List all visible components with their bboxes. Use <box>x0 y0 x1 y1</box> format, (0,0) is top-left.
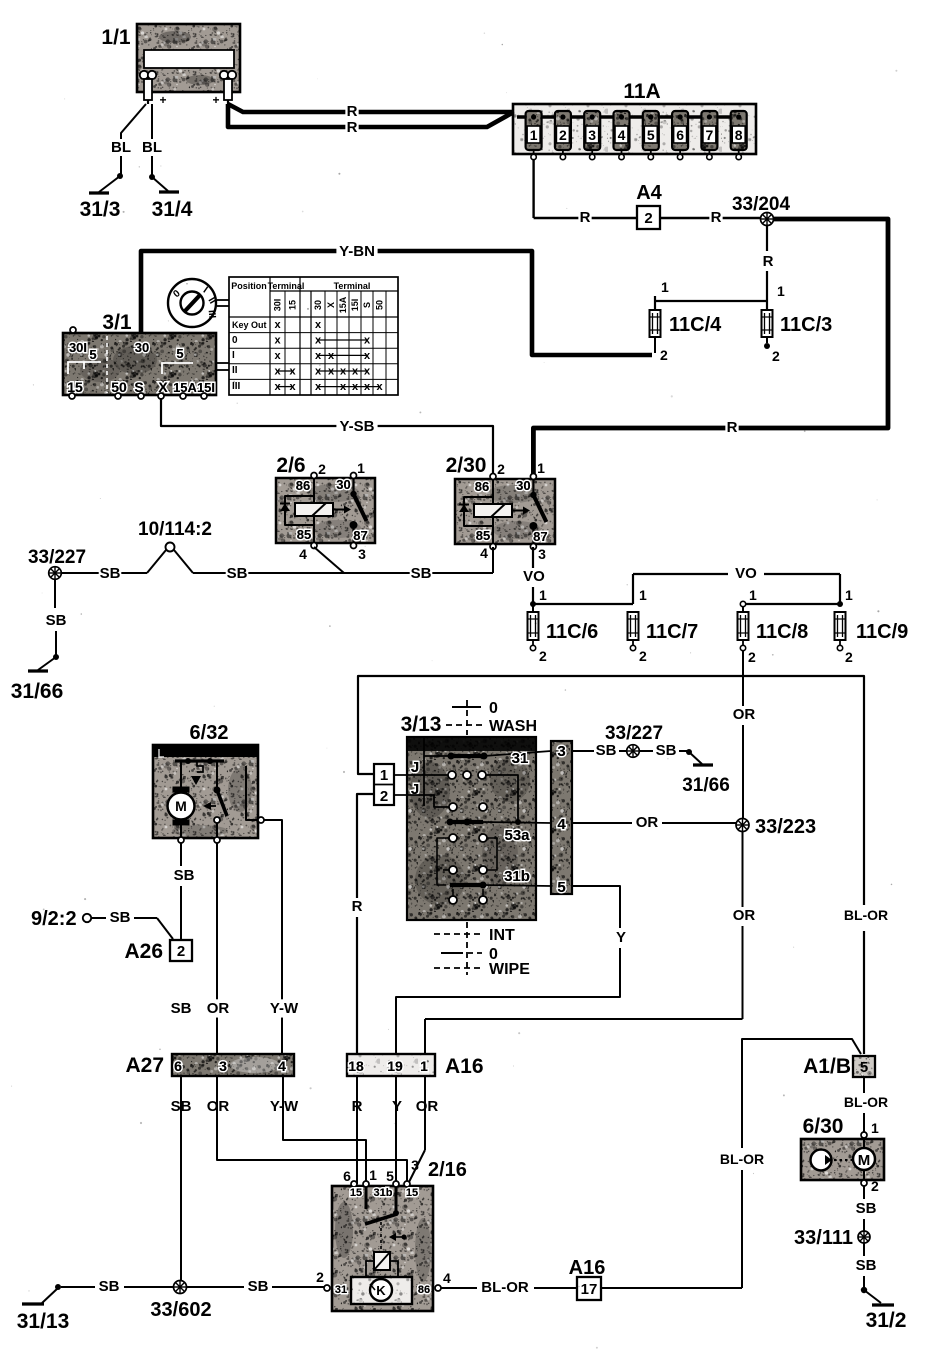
svg-text:87: 87 <box>353 528 367 543</box>
svg-text:Key Out: Key Out <box>232 320 267 330</box>
svg-text:R: R <box>347 119 358 136</box>
svg-text:Y-SB: Y-SB <box>339 418 374 435</box>
svg-text:1: 1 <box>777 283 785 299</box>
svg-text:J: J <box>411 759 419 776</box>
svg-text:11A: 11A <box>623 80 660 103</box>
svg-text:15A: 15A <box>173 380 197 395</box>
svg-text:x: x <box>274 319 281 331</box>
svg-text:SB: SB <box>227 565 248 582</box>
svg-text:4: 4 <box>557 816 566 833</box>
fuse 11A/3 <box>584 111 600 160</box>
svg-text:INT: INT <box>489 927 515 944</box>
svg-text:17: 17 <box>581 1281 598 1298</box>
fuse 11A/7 <box>701 111 717 160</box>
svg-text:SB: SB <box>110 909 131 926</box>
svg-text:31: 31 <box>512 750 529 767</box>
svg-text:6: 6 <box>343 1168 351 1184</box>
svg-text:5: 5 <box>647 127 655 143</box>
wire SB connector A27 to splice 33/602 <box>180 1076 182 1287</box>
svg-text:1/1: 1/1 <box>101 26 131 49</box>
relay 2/6 <box>276 460 375 562</box>
svg-text:18: 18 <box>348 1058 364 1074</box>
wire BL-OR relay 2/16 pin 4 to connector A16 pin 17 <box>441 1279 577 1296</box>
wire R fuse 1 to connector A4 <box>534 159 637 227</box>
wire Y-BN ignition switch to fuse 11C/4 <box>141 242 652 355</box>
wire SB splice 33/602 to relay 2/16 pin 2 <box>186 1278 324 1295</box>
svg-text:11C/8: 11C/8 <box>756 621 808 643</box>
svg-text:11C/7: 11C/7 <box>646 621 698 643</box>
svg-text:2: 2 <box>772 348 780 364</box>
svg-text:3: 3 <box>588 127 596 143</box>
svg-text:6: 6 <box>174 1058 182 1074</box>
svg-text:33/204: 33/204 <box>732 194 791 215</box>
connector A1/B pin 5 <box>853 1056 875 1077</box>
svg-text:2: 2 <box>559 127 567 143</box>
svg-text:4: 4 <box>278 1058 286 1074</box>
svg-text:31/66: 31/66 <box>682 775 730 796</box>
svg-text:SB: SB <box>411 565 432 582</box>
fuse 11C/3 <box>762 301 781 364</box>
wire R battery to fuse box 11A upper <box>228 102 514 120</box>
svg-text:VO: VO <box>735 565 757 582</box>
relay 2/30 <box>455 460 555 562</box>
wire OR fuse 11C/8 to splice 33/223 <box>733 651 756 818</box>
wire OR washer pump to connector A27 pin 3 <box>216 843 218 1054</box>
svg-text:1: 1 <box>380 767 388 784</box>
svg-text:3: 3 <box>219 1058 227 1074</box>
svg-text:2/16: 2/16 <box>428 1159 467 1181</box>
fuse 11C/7 <box>628 587 648 664</box>
washer pump 6/32 <box>153 745 264 843</box>
wire BL to ground 31/3 <box>111 104 146 176</box>
svg-text:5: 5 <box>557 879 565 896</box>
svg-text:A16: A16 <box>445 1055 484 1078</box>
svg-text:x: x <box>352 366 359 378</box>
wire labels below connector A16 <box>350 1097 438 1115</box>
svg-text:1: 1 <box>530 127 538 143</box>
fuse 11A/6 <box>672 111 688 160</box>
svg-text:K: K <box>376 1283 386 1298</box>
svg-text:SB: SB <box>174 867 195 884</box>
svg-text:x: x <box>315 335 322 347</box>
svg-text:1: 1 <box>845 587 853 603</box>
ignition switch 3/1 <box>63 327 216 399</box>
svg-text:A16: A16 <box>569 1257 606 1279</box>
svg-text:x: x <box>289 381 296 393</box>
svg-text:31/2: 31/2 <box>866 1309 907 1332</box>
svg-text:86: 86 <box>475 479 489 494</box>
svg-text:R: R <box>347 103 358 120</box>
svg-text:30I: 30I <box>273 299 283 312</box>
svg-text:1: 1 <box>369 1167 377 1183</box>
wire VO relay 2/30 pin 3 to fuse 11C/6 <box>523 547 547 603</box>
svg-text:2: 2 <box>380 788 388 805</box>
ignition switch position table <box>229 277 398 395</box>
svg-text:SB: SB <box>596 742 617 759</box>
svg-text:3/13: 3/13 <box>401 713 442 736</box>
svg-text:3: 3 <box>358 546 366 562</box>
ground 31/66 right <box>682 749 730 796</box>
connector A27 <box>172 1054 294 1076</box>
svg-text:2: 2 <box>660 347 668 363</box>
svg-text:Terminal: Terminal <box>334 281 371 291</box>
svg-text:x: x <box>274 335 281 347</box>
wire R main feed to relay 2/30 pin 1 <box>533 219 888 477</box>
svg-text:+: + <box>212 93 219 107</box>
svg-text:7: 7 <box>706 127 714 143</box>
connector 9/2:2 <box>83 914 91 922</box>
svg-text:A27: A27 <box>125 1054 164 1077</box>
svg-text:OR: OR <box>416 1098 439 1115</box>
svg-text:2: 2 <box>871 1178 879 1194</box>
wire R battery to fuse box 11A lower <box>228 104 512 137</box>
svg-text:6: 6 <box>676 127 684 143</box>
svg-text:8: 8 <box>735 127 743 143</box>
svg-text:OR: OR <box>733 907 756 924</box>
svg-text:Position: Position <box>231 281 267 291</box>
svg-text:BL: BL <box>142 139 162 156</box>
svg-text:x: x <box>289 366 296 378</box>
svg-text:15: 15 <box>67 379 83 395</box>
battery 1/1 <box>137 24 240 92</box>
svg-text:2/6: 2/6 <box>276 454 305 477</box>
svg-text:10/114:2: 10/114:2 <box>138 519 212 540</box>
svg-text:30: 30 <box>313 300 323 310</box>
svg-text:SB: SB <box>99 1278 120 1295</box>
svg-text:WIPE: WIPE <box>489 961 530 978</box>
fuse 11A/8 <box>731 111 747 160</box>
wire OR strip pin 4 to splice 33/223 <box>572 813 736 831</box>
svg-text:1: 1 <box>639 587 647 603</box>
connector 1 2 at wiper switch <box>374 764 394 805</box>
battery terminal negative <box>140 71 156 104</box>
svg-text:x: x <box>376 381 383 393</box>
ground 31/66 left <box>11 654 64 703</box>
svg-text:SB: SB <box>100 565 121 582</box>
connector A26 pin 2 <box>170 940 192 961</box>
svg-text:87: 87 <box>533 529 547 544</box>
svg-text:2: 2 <box>644 210 652 227</box>
wire OR splice 33/223 to connector A16 pin 1 <box>425 831 755 1054</box>
svg-text:2: 2 <box>177 943 185 960</box>
wire SB splice 33/111 to ground 31/2 <box>856 1243 877 1288</box>
svg-text:33/223: 33/223 <box>755 816 816 838</box>
svg-text:30: 30 <box>135 340 149 355</box>
svg-text:33/111: 33/111 <box>794 1227 853 1249</box>
wire R connector A4 to splice 33/204 <box>660 208 761 226</box>
svg-text:x: x <box>315 350 322 362</box>
wiper switch 3/13 <box>394 737 551 920</box>
svg-text:R: R <box>352 898 363 915</box>
svg-text:2/30: 2/30 <box>446 454 487 477</box>
svg-text:VO: VO <box>523 568 545 585</box>
fuse 11C/6 <box>528 604 548 664</box>
svg-text:SB: SB <box>46 612 67 629</box>
wire SB 9/2:2 to connector A26 <box>91 909 173 939</box>
svg-text:x: x <box>364 335 371 347</box>
svg-text:SB: SB <box>856 1257 877 1274</box>
svg-text:1: 1 <box>539 587 547 603</box>
ground 31/4 <box>149 174 193 221</box>
svg-text:33/602: 33/602 <box>150 1299 211 1321</box>
svg-text:OR: OR <box>207 1000 230 1017</box>
svg-text:11C/6: 11C/6 <box>546 621 598 643</box>
splice 33/111 <box>858 1231 870 1243</box>
fuse 11A/2 <box>555 111 571 160</box>
svg-text:11C/4: 11C/4 <box>669 314 722 336</box>
wire SB splice 33/227 to ground 31/66 <box>46 579 67 655</box>
svg-text:M: M <box>858 1152 871 1169</box>
svg-text:OR: OR <box>207 1098 230 1115</box>
battery terminal positive <box>159 71 236 107</box>
svg-text:R: R <box>727 419 738 436</box>
ground 31/13 <box>17 1284 70 1333</box>
svg-text:86: 86 <box>296 478 310 493</box>
svg-text:SB: SB <box>856 1200 877 1217</box>
svg-text:II: II <box>232 365 238 376</box>
svg-text:30I: 30I <box>69 340 87 355</box>
svg-text:BL: BL <box>111 139 131 156</box>
svg-text:R: R <box>711 209 722 226</box>
relay 2/16 <box>324 1181 441 1311</box>
svg-text:x: x <box>340 381 347 393</box>
svg-text:BL-OR: BL-OR <box>720 1151 764 1167</box>
svg-text:1: 1 <box>420 1058 428 1074</box>
wire SB ground 31/13 to splice 33/602 <box>61 1278 174 1295</box>
wire R rail connector 2 to connector A16 pin 18 <box>352 794 374 1054</box>
connector A4 pin 2 <box>637 206 660 229</box>
fuse 11A/4 <box>614 111 630 160</box>
svg-text:0: 0 <box>489 700 498 717</box>
ground 31/2 <box>861 1287 907 1332</box>
svg-text:OR: OR <box>733 706 756 723</box>
splice 33/602 <box>174 1281 187 1294</box>
svg-text:2: 2 <box>748 649 756 665</box>
svg-text:15: 15 <box>350 1187 362 1199</box>
wire SB splice 33/227 to relays <box>61 550 166 583</box>
wire SB washer pump to connector A26 <box>174 843 195 940</box>
wire BL to ground 31/4 <box>142 104 162 176</box>
svg-text:M: M <box>175 798 187 814</box>
svg-text:x: x <box>274 381 281 393</box>
fuse box 11A <box>513 104 756 154</box>
svg-text:R: R <box>580 209 591 226</box>
svg-text:5: 5 <box>176 346 183 361</box>
fuse 11C/4 <box>650 279 670 363</box>
svg-text:9/2:2: 9/2:2 <box>31 908 77 930</box>
svg-text:x: x <box>274 366 281 378</box>
wire SB 10/114:2 to relay 2/6 and 2/30 pin 4 <box>174 547 493 583</box>
svg-text:SB: SB <box>171 1000 192 1017</box>
wire relay 2/6 pin 4 junction <box>314 547 344 573</box>
svg-text:OR: OR <box>636 814 659 831</box>
svg-text:x: x <box>328 366 335 378</box>
svg-text:x: x <box>328 350 335 362</box>
svg-text:3: 3 <box>411 1157 419 1173</box>
svg-text:x: x <box>315 366 322 378</box>
wire BL-OR loop 3/13 connector to A1/B <box>358 676 890 1054</box>
svg-text:33/227: 33/227 <box>28 547 86 568</box>
wire OR connector A16 pin 1 to relay 2/16 pin 3 <box>408 1076 425 1184</box>
wire Y-W washer pump to connector A27 pin 4 <box>264 820 282 1054</box>
svg-text:1: 1 <box>661 279 669 295</box>
svg-text:R: R <box>763 253 774 270</box>
wire Y connector A16 to relay 2/16 pin 5 <box>395 1076 397 1184</box>
svg-text:5: 5 <box>89 347 96 362</box>
svg-text:BL-OR: BL-OR <box>844 1094 888 1110</box>
fuse 11C/9 <box>835 587 854 665</box>
svg-text:x: x <box>364 381 371 393</box>
wire OR connector A27 to relay 2/16 pin 3 <box>217 1076 407 1184</box>
svg-text:1: 1 <box>357 460 365 476</box>
svg-text:5: 5 <box>860 1059 868 1076</box>
node fuse 11C/6 pin 1 <box>530 601 536 607</box>
svg-text:15: 15 <box>406 1187 418 1199</box>
svg-text:6/32: 6/32 <box>190 722 229 744</box>
connector 10/114:2 <box>166 543 175 552</box>
connector strip 3 4 5 <box>551 741 572 896</box>
svg-text:19: 19 <box>387 1058 403 1074</box>
fuse 11C/8 <box>738 587 758 665</box>
svg-text:1: 1 <box>749 587 757 603</box>
svg-text:x: x <box>274 350 281 362</box>
svg-text:11C/3: 11C/3 <box>780 314 832 336</box>
wire labels below connector A27 <box>170 1097 300 1115</box>
svg-text:2: 2 <box>497 461 505 477</box>
connector A16 pin 17 <box>577 1277 601 1300</box>
svg-text:53a: 53a <box>504 827 530 844</box>
fuse 11A/1 <box>526 111 542 160</box>
svg-text:31b: 31b <box>374 1187 393 1199</box>
svg-text:31/66: 31/66 <box>11 680 64 703</box>
svg-text:15: 15 <box>288 300 298 310</box>
svg-text:SB: SB <box>248 1278 269 1295</box>
wire BL-OR connector A1/B to motor 6/30 <box>844 1077 888 1138</box>
svg-text:2: 2 <box>316 1269 324 1285</box>
svg-text:15A: 15A <box>338 296 348 313</box>
svg-text:31/4: 31/4 <box>152 198 193 221</box>
svg-text:x: x <box>364 350 371 362</box>
svg-text:1: 1 <box>537 460 545 476</box>
wire fuse 11C/4 pin 1 to fuse 11C/3 pin 1 <box>655 300 767 302</box>
svg-text:31: 31 <box>335 1284 347 1296</box>
svg-text:11C/9: 11C/9 <box>856 621 908 643</box>
svg-text:Y-W: Y-W <box>270 1000 299 1017</box>
svg-text:0: 0 <box>232 335 238 346</box>
wire R connector A16 to relay 2/16 pin 6 <box>356 1076 358 1184</box>
svg-text:SB: SB <box>656 742 677 759</box>
wire fuse 11C/6 pin 1 to 11C/7 pin 1 <box>533 603 633 605</box>
svg-text:III: III <box>206 309 218 318</box>
svg-text:4: 4 <box>480 545 488 561</box>
wire SB splice 33/227 right to ground 31/66 <box>639 742 687 759</box>
splice 33/227 left <box>49 567 62 580</box>
svg-text:2: 2 <box>639 648 647 664</box>
svg-text:A1/B: A1/B <box>803 1055 851 1078</box>
svg-text:31/13: 31/13 <box>17 1310 70 1333</box>
wire Y-SB ignition X to relay 2/30 pin 2 <box>161 398 493 477</box>
svg-text:x: x <box>364 366 371 378</box>
svg-text:3: 3 <box>538 546 546 562</box>
svg-text:x: x <box>315 381 322 393</box>
svg-text:A4: A4 <box>636 182 662 204</box>
wiper switch position indicator top <box>446 700 537 735</box>
fuse 11A/5 <box>643 111 659 160</box>
svg-text:+: + <box>159 93 166 107</box>
svg-text:31b: 31b <box>504 868 530 885</box>
svg-text:15I: 15I <box>350 299 360 312</box>
wire BL-OR connector A16 pin 17 to connector A1/B <box>601 1039 861 1288</box>
wire SB motor 6/30 to splice 33/111 <box>856 1178 879 1231</box>
svg-text:4: 4 <box>618 127 626 143</box>
svg-text:WASH: WASH <box>489 718 537 735</box>
svg-text:3: 3 <box>557 743 565 760</box>
svg-text:X: X <box>326 302 336 308</box>
wire Y strip pin 5 to connector A16 pin 19 <box>396 886 626 1054</box>
svg-text:4: 4 <box>443 1270 451 1286</box>
ground 31/3 <box>80 173 123 221</box>
svg-text:x: x <box>352 381 359 393</box>
svg-text:50: 50 <box>375 300 385 310</box>
wire SB strip pin 3 to splice 33/227 right <box>572 742 626 759</box>
svg-text:Y: Y <box>616 929 626 946</box>
connector A16 <box>347 1054 435 1076</box>
splice 33/227 right <box>627 745 640 758</box>
svg-text:2: 2 <box>318 461 326 477</box>
wiper switch position indicator bottom <box>434 922 530 978</box>
svg-text:85: 85 <box>476 528 490 543</box>
svg-text:3/1: 3/1 <box>102 311 132 334</box>
svg-text:x: x <box>340 366 347 378</box>
relay 2/16 pin labels <box>316 1157 451 1286</box>
svg-text:1: 1 <box>871 1120 879 1136</box>
svg-text:86: 86 <box>418 1284 430 1296</box>
svg-text:I: I <box>232 350 235 361</box>
svg-text:III: III <box>232 381 241 392</box>
svg-text:85: 85 <box>297 527 311 542</box>
wire VO fuse 11C/7 to fuse 11C/9 <box>633 564 843 607</box>
svg-text:x: x <box>315 319 322 331</box>
splice 33/223 <box>736 819 749 832</box>
wire labels above connector A27 <box>170 999 300 1017</box>
svg-text:Terminal: Terminal <box>268 281 305 291</box>
svg-text:A26: A26 <box>124 940 163 963</box>
svg-text:2: 2 <box>845 649 853 665</box>
washer motor 6/30 <box>801 1139 884 1180</box>
wire R splice 33/204 to fuse 11C/3 <box>763 226 785 301</box>
svg-text:6/30: 6/30 <box>803 1115 844 1138</box>
wire Y-W connector A27 to relay 2/16 pin 1 <box>283 1076 366 1184</box>
svg-text:31/3: 31/3 <box>80 198 121 221</box>
svg-text:5: 5 <box>386 1168 394 1184</box>
svg-text:33/227: 33/227 <box>605 723 663 744</box>
svg-text:Y-W: Y-W <box>270 1098 299 1115</box>
ignition key symbol <box>168 279 229 370</box>
svg-text:BL-OR: BL-OR <box>844 907 888 923</box>
svg-text:BL-OR: BL-OR <box>481 1279 529 1296</box>
svg-text:Y-BN: Y-BN <box>339 243 375 260</box>
svg-text:2: 2 <box>539 648 547 664</box>
svg-text:30: 30 <box>336 477 350 492</box>
svg-text:30: 30 <box>516 478 530 493</box>
splice 33/204 <box>761 213 774 226</box>
svg-text:4: 4 <box>299 546 307 562</box>
svg-text:S: S <box>362 302 372 308</box>
